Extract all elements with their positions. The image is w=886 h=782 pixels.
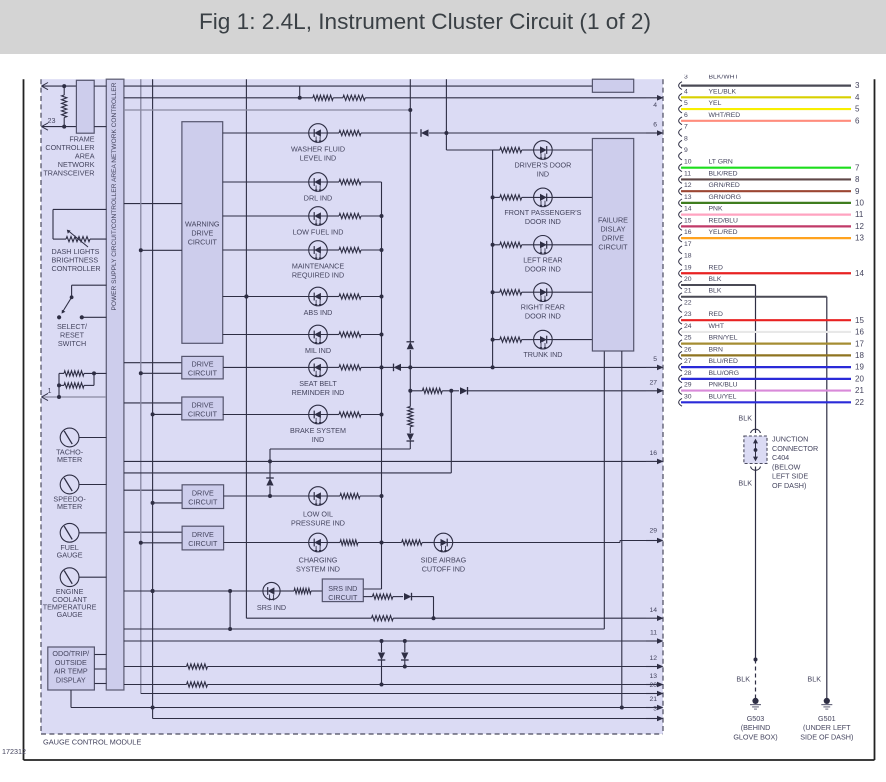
svg-text:CHARGING: CHARGING [299, 556, 338, 565]
wire RED pin 19 [681, 272, 851, 274]
connector pin 27 [679, 363, 682, 371]
svg-text:14: 14 [649, 607, 657, 614]
connector pin 20 [679, 281, 682, 289]
svg-text:12: 12 [649, 655, 657, 662]
svg-text:C404: C404 [772, 453, 789, 462]
svg-text:4: 4 [855, 93, 860, 102]
svg-text:13: 13 [855, 234, 864, 243]
drive circuit box [124, 402, 182, 404]
svg-text:1: 1 [48, 386, 52, 395]
svg-text:SYSTEM IND: SYSTEM IND [296, 565, 340, 574]
line to pin 12 [124, 666, 187, 668]
wire srs box to bus [363, 588, 381, 590]
diode line11 to line12 [403, 639, 407, 643]
indicator DRL IND [223, 181, 309, 183]
warning drive circuit box [182, 122, 223, 344]
bus wire x=410.3 from top [409, 79, 411, 341]
svg-text:DOOR IND: DOOR IND [525, 217, 561, 226]
svg-text:8: 8 [684, 135, 688, 142]
svg-text:LEFT REAR: LEFT REAR [523, 255, 562, 264]
link T1-T2 [299, 86, 301, 98]
wire YEL/RED pin 16 [681, 237, 851, 239]
svg-text:14: 14 [855, 269, 864, 278]
svg-text:RED: RED [709, 264, 723, 271]
svg-text:(BEHIND: (BEHIND [741, 723, 771, 732]
module pin 14 arrow [646, 617, 658, 619]
svg-text:21: 21 [855, 386, 864, 395]
door bus vertical [492, 150, 494, 367]
svg-text:WASHER FLUID: WASHER FLUID [291, 145, 345, 154]
washer fluid level ind [223, 132, 309, 134]
svg-text:18: 18 [855, 351, 864, 360]
wire GRN/RED pin 12 [681, 190, 851, 192]
diode up on x=270 [266, 478, 273, 486]
connector pin 17 [679, 246, 682, 254]
wire YEL/BLK pin 4 [681, 96, 851, 98]
connector pin 16 [679, 234, 682, 242]
gauge ENGINE [60, 568, 79, 587]
svg-text:POWER SUPPLY CIRCUIT/CONTROLLE: POWER SUPPLY CIRCUIT/CONTROLLER AREA NET… [112, 82, 118, 311]
svg-text:DOOR IND: DOOR IND [525, 312, 561, 321]
svg-text:CIRCUIT: CIRCUIT [328, 593, 358, 602]
connector pin 18 [679, 258, 682, 266]
svg-text:GAUGE: GAUGE [57, 610, 83, 619]
connector pin 11 [679, 176, 682, 184]
svg-text:PRESSURE IND: PRESSURE IND [291, 519, 345, 528]
svg-text:19: 19 [684, 264, 692, 271]
svg-text:28: 28 [684, 370, 692, 377]
wire BRN/YEL pin 25 [681, 343, 851, 345]
pin 1 row (gray) [42, 396, 106, 398]
svg-text:19: 19 [855, 363, 864, 372]
svg-text:AIR TEMP: AIR TEMP [54, 667, 88, 676]
resistor [187, 664, 208, 669]
svg-text:TRANSCEIVER: TRANSCEIVER [43, 169, 94, 178]
svg-text:7: 7 [855, 163, 860, 172]
bus wire x=381.5 [381, 182, 383, 589]
indicator MIL IND [223, 334, 309, 336]
svg-text:5: 5 [855, 105, 860, 114]
svg-text:METER: METER [57, 455, 82, 464]
svg-text:BLK: BLK [736, 675, 750, 684]
wire strip to warning box [124, 203, 182, 205]
dashed wire to G503 [755, 660, 757, 699]
svg-text:BRAKE SYSTEM: BRAKE SYSTEM [290, 426, 346, 435]
resistor [500, 195, 522, 200]
connector pin 15 [679, 222, 682, 230]
resistor [339, 130, 361, 135]
svg-text:BLU/RED: BLU/RED [709, 358, 739, 365]
connector pin 22 [679, 305, 682, 313]
svg-text:DRL IND: DRL IND [304, 194, 333, 203]
svg-text:MIL IND: MIL IND [305, 346, 331, 355]
svg-text:22: 22 [855, 398, 864, 407]
svg-text:20: 20 [855, 374, 864, 383]
wire WHT pin 24 [681, 331, 851, 333]
dash lights brightness controller [53, 208, 106, 210]
svg-text:3: 3 [855, 81, 860, 90]
resistor [339, 247, 361, 252]
svg-text:20: 20 [684, 276, 692, 283]
svg-text:20: 20 [649, 682, 657, 689]
module pin 4 arrow [646, 97, 658, 99]
indicator LOW FUEL IND [223, 215, 309, 217]
wire BLU/ORG pin 28 [681, 378, 851, 380]
wire BLU/YEL pin 30 [681, 401, 851, 403]
svg-text:DRIVE: DRIVE [192, 530, 214, 539]
resistor [500, 147, 522, 152]
line to pin 11 [124, 640, 646, 642]
svg-text:CIRCUIT: CIRCUIT [188, 409, 218, 418]
connector pin 14 [679, 211, 682, 219]
left bus wire x=152.6 [152, 79, 154, 718]
wire pin24 row [42, 85, 77, 87]
resistor [339, 179, 361, 184]
svg-text:DRIVE: DRIVE [192, 359, 214, 368]
svg-text:23: 23 [48, 116, 56, 125]
wire BRN pin 26 [681, 354, 851, 356]
connector pin 5 [679, 105, 682, 113]
svg-text:12: 12 [855, 222, 864, 231]
svg-text:PNK: PNK [709, 206, 723, 213]
svg-text:5: 5 [684, 100, 688, 107]
svg-text:RED: RED [709, 311, 723, 318]
svg-text:SIDE AIRBAG: SIDE AIRBAG [421, 556, 467, 565]
indicator BRAKE SYSTEM [223, 414, 309, 416]
connector pin 28 [679, 375, 682, 383]
wire RED/BLU pin 15 [681, 225, 851, 227]
svg-text:7: 7 [684, 124, 688, 131]
svg-text:17: 17 [855, 339, 864, 348]
indicator DRIVER'S DOOR [493, 149, 500, 151]
svg-text:METER: METER [57, 502, 82, 511]
svg-text:14: 14 [684, 206, 692, 213]
connector pin 29 [679, 387, 682, 395]
page frame [23, 79, 25, 760]
svg-text:DRIVE: DRIVE [192, 488, 214, 497]
svg-text:WHT/RED: WHT/RED [709, 112, 741, 119]
resistor [294, 588, 311, 593]
SRS ind row [124, 590, 264, 592]
wire left bus to warning box [141, 249, 182, 251]
resistor to side airbag [382, 542, 402, 544]
svg-text:CONTROLLER: CONTROLLER [52, 264, 101, 273]
svg-text:10: 10 [855, 199, 864, 208]
resistor [339, 332, 361, 337]
failure box right leg to line 21 [621, 351, 623, 708]
module pin 27 arrow [646, 390, 658, 392]
svg-text:ABS IND: ABS IND [304, 308, 333, 317]
module pin 12 arrow [646, 666, 658, 668]
svg-text:5: 5 [653, 356, 657, 363]
top cut box (failure display) [592, 79, 633, 92]
svg-text:IND: IND [537, 170, 549, 179]
svg-text:CONNECTOR: CONNECTOR [772, 444, 818, 453]
svg-text:15: 15 [684, 217, 692, 224]
svg-text:GLOVE BOX): GLOVE BOX) [733, 732, 777, 741]
resistor [340, 540, 358, 545]
connector pin 7 [679, 129, 682, 137]
indicator LEFT REAR [491, 243, 495, 247]
svg-text:LOW OIL: LOW OIL [303, 510, 333, 519]
connector pin 30 [679, 398, 682, 406]
svg-text:RIGHT REAR: RIGHT REAR [521, 303, 565, 312]
line to pin 14 [246, 617, 371, 619]
indicator ABS IND [223, 296, 309, 298]
wire BLK vertical to G501 [826, 297, 828, 699]
svg-text:BLK: BLK [709, 276, 722, 283]
drive circuit box [124, 531, 182, 533]
wire WHT/RED pin 6 [681, 120, 851, 122]
svg-text:BLU/YEL: BLU/YEL [709, 393, 737, 400]
svg-text:GRN/RED: GRN/RED [709, 182, 740, 189]
svg-text:REMINDER IND: REMINDER IND [292, 388, 345, 397]
module pin 29 arrow [646, 540, 658, 542]
svg-text:DISPLAY: DISPLAY [56, 675, 86, 684]
gauge TACHO- [60, 428, 79, 447]
svg-text:OF DASH): OF DASH) [772, 481, 806, 490]
diode up on x=410.3 [407, 342, 414, 350]
resistor [402, 540, 423, 545]
svg-text:BRN/YEL: BRN/YEL [709, 335, 738, 342]
resistor [64, 371, 84, 376]
svg-text:OUTSIDE: OUTSIDE [55, 658, 87, 667]
connector pin 10 [679, 164, 682, 172]
svg-text:DRIVE: DRIVE [191, 229, 213, 238]
line 472.9 from strip to pin27 node [124, 472, 451, 474]
wire PNK/BLU pin 29 [681, 389, 851, 391]
wire odo box bottom to pin21 line [70, 690, 72, 708]
svg-text:MAINTENANCE: MAINTENANCE [292, 262, 345, 271]
connector pin 9 [679, 152, 682, 160]
svg-text:9: 9 [855, 187, 860, 196]
connector pin 25 [679, 340, 682, 348]
wire BLK pin21 to G501 [681, 296, 827, 298]
svg-text:3: 3 [653, 706, 657, 713]
bus T1 y=86.1 [124, 85, 593, 87]
svg-text:DRIVER'S DOOR: DRIVER'S DOOR [514, 161, 571, 170]
svg-text:DRIVE: DRIVE [192, 400, 214, 409]
srs ind circuit box [322, 579, 363, 602]
svg-text:11: 11 [855, 210, 864, 219]
ground G501 [824, 698, 830, 704]
module pin 11 arrow [646, 640, 658, 642]
module pin 6 arrow [646, 132, 658, 134]
wire BLK pin20 to G503 [681, 284, 756, 286]
svg-text:LEFT SIDE: LEFT SIDE [772, 472, 808, 481]
diode down on x=410.3 [407, 434, 414, 442]
resistor [372, 616, 394, 621]
failure dislay drive circuit box [592, 139, 633, 352]
connector pin 23 [679, 316, 682, 324]
drive circuit box [124, 362, 182, 364]
connector pin 8 [679, 140, 682, 148]
svg-text:30: 30 [684, 393, 692, 400]
pin 16 line [124, 460, 646, 462]
svg-text:10: 10 [684, 159, 692, 166]
svg-text:172312: 172312 [2, 747, 26, 756]
resistor [339, 412, 361, 417]
page cut mask top right [664, 58, 870, 75]
svg-text:TRUNK IND: TRUNK IND [523, 350, 562, 359]
resistor [187, 682, 208, 687]
svg-text:BLK: BLK [807, 675, 821, 684]
module pin 20 arrow [646, 693, 658, 695]
svg-text:27: 27 [684, 358, 692, 365]
module pin 13 arrow [646, 684, 658, 686]
svg-text:29: 29 [684, 382, 692, 389]
side airbag cutoff ind [434, 533, 453, 552]
svg-text:DISLAY: DISLAY [600, 225, 625, 234]
svg-text:LT GRN: LT GRN [709, 159, 733, 166]
svg-text:29: 29 [649, 528, 657, 535]
indicator RIGHT REAR [491, 290, 495, 294]
resistor [343, 95, 365, 100]
svg-text:GRN/ORG: GRN/ORG [709, 194, 741, 201]
resistor [62, 95, 67, 118]
connector pin 12 [679, 187, 682, 195]
svg-text:CIRCUIT: CIRCUIT [188, 497, 218, 506]
svg-text:SIDE OF DASH): SIDE OF DASH) [800, 732, 853, 741]
svg-text:WARNING: WARNING [185, 220, 220, 229]
junction connector C404 [744, 436, 767, 464]
svg-text:YEL/RED: YEL/RED [709, 229, 738, 236]
resistor [64, 383, 84, 388]
svg-text:CIRCUIT: CIRCUIT [188, 539, 218, 548]
svg-text:13: 13 [649, 673, 657, 680]
resistor [422, 388, 442, 393]
svg-text:JUNCTION: JUNCTION [772, 435, 808, 444]
wire BLK vertical to junction connector C404 and G503 [755, 285, 757, 433]
svg-text:ODO/TRIP/: ODO/TRIP/ [52, 649, 89, 658]
svg-text:GAUGE: GAUGE [57, 550, 83, 559]
svg-text:16: 16 [649, 450, 657, 457]
indicator TRUNK IND [491, 338, 495, 342]
svg-text:27: 27 [649, 380, 657, 387]
svg-text:BLK: BLK [709, 288, 722, 295]
svg-text:SRS IND: SRS IND [328, 584, 357, 593]
svg-text:BLK: BLK [738, 414, 752, 423]
svg-text:23: 23 [684, 311, 692, 318]
svg-text:BRN: BRN [709, 346, 723, 353]
svg-text:REQUIRED IND: REQUIRED IND [292, 271, 344, 280]
svg-text:CUTOFF IND: CUTOFF IND [422, 565, 465, 574]
frame controller area network transceiver box [76, 80, 94, 133]
wire BLK/WHT pin 3 [681, 84, 851, 86]
svg-text:26: 26 [684, 346, 692, 353]
wire BLK/RED pin 11 [681, 178, 851, 180]
gauge SPEEDO- [60, 475, 79, 494]
svg-text:DRIVE: DRIVE [602, 234, 624, 243]
svg-text:16: 16 [684, 229, 692, 236]
svg-text:PNK/BLU: PNK/BLU [709, 382, 738, 389]
svg-text:BLK/RED: BLK/RED [709, 170, 738, 177]
svg-text:15: 15 [855, 316, 864, 325]
resistor [66, 237, 90, 242]
svg-text:18: 18 [684, 253, 692, 260]
svg-text:RED/BLU: RED/BLU [709, 217, 739, 224]
svg-text:8: 8 [855, 175, 860, 184]
line to pin 13 [124, 684, 187, 686]
module pin 5 arrow [646, 366, 658, 368]
wire x=230.1 down to line B [229, 591, 231, 629]
indicator FRONT PASSENGER'S [491, 195, 495, 199]
resistor [339, 294, 361, 299]
module pin 16 arrow [646, 460, 658, 462]
svg-text:GAUGE CONTROL MODULE: GAUGE CONTROL MODULE [43, 738, 141, 747]
svg-text:G503: G503 [747, 714, 765, 723]
parallel resistors R pin1 [58, 373, 60, 397]
svg-text:6: 6 [855, 116, 860, 125]
connector pin 4 [679, 93, 682, 101]
svg-text:21: 21 [649, 696, 657, 703]
svg-text:21: 21 [684, 288, 692, 295]
wire washer node down to drivers door row [445, 133, 447, 150]
wire GRN/ORG pin 13 [681, 202, 851, 204]
diode seat belt row [394, 364, 402, 371]
ground G503 [752, 698, 758, 704]
node on pin24 row [62, 84, 66, 88]
charging system ind [224, 542, 309, 544]
svg-text:22: 22 [684, 299, 692, 306]
svg-text:11: 11 [650, 630, 657, 637]
wire YEL pin 5 [681, 108, 851, 110]
svg-text:13: 13 [684, 194, 692, 201]
svg-text:SRS IND: SRS IND [257, 603, 286, 612]
connector pin 3 [679, 82, 682, 90]
wire pin 23 [42, 126, 77, 128]
indicator MAINTENANCE [223, 249, 309, 251]
bus T2 to module pin 4 [124, 97, 313, 99]
wire RED pin 23 [681, 319, 851, 321]
svg-text:(BELOW: (BELOW [772, 462, 801, 471]
connector pin 24 [679, 328, 682, 336]
connector pin 6 [679, 117, 682, 125]
wire BLU/RED pin 27 [681, 366, 851, 368]
resistor [340, 493, 360, 498]
bus wire x=246.4 to line14 [245, 79, 247, 618]
module pin 3 arrow [646, 718, 658, 720]
svg-text:CIRCUIT: CIRCUIT [598, 243, 628, 252]
svg-text:IND: IND [312, 435, 324, 444]
svg-text:YEL/BLK: YEL/BLK [709, 88, 737, 95]
gray bus T3 [124, 109, 410, 111]
svg-text:16: 16 [855, 328, 864, 337]
svg-text:BLK: BLK [738, 479, 752, 488]
svg-text:BLU/ORG: BLU/ORG [709, 370, 740, 377]
resistor [339, 213, 361, 218]
diode washer row [421, 129, 429, 136]
gauge control module dashed border [40, 79, 42, 734]
svg-text:12: 12 [684, 182, 692, 189]
svg-text:17: 17 [684, 241, 692, 248]
svg-text:CIRCUIT: CIRCUIT [188, 368, 218, 377]
diode pin27 line [460, 387, 468, 394]
resistor [500, 337, 522, 342]
svg-text:SWITCH: SWITCH [58, 339, 86, 348]
diode line11 to line13 [380, 639, 384, 643]
svg-text:DOOR IND: DOOR IND [525, 264, 561, 273]
wire LT GRN pin 10 [681, 167, 851, 169]
svg-text:11: 11 [684, 170, 691, 177]
drive circuit box [124, 489, 182, 491]
svg-text:4: 4 [653, 102, 657, 109]
line B to failure box [124, 628, 604, 630]
connector pin 26 [679, 351, 682, 359]
pin 27 line [410, 390, 422, 392]
svg-text:(UNDER LEFT: (UNDER LEFT [803, 723, 851, 732]
power supply circuit strip [106, 79, 124, 690]
